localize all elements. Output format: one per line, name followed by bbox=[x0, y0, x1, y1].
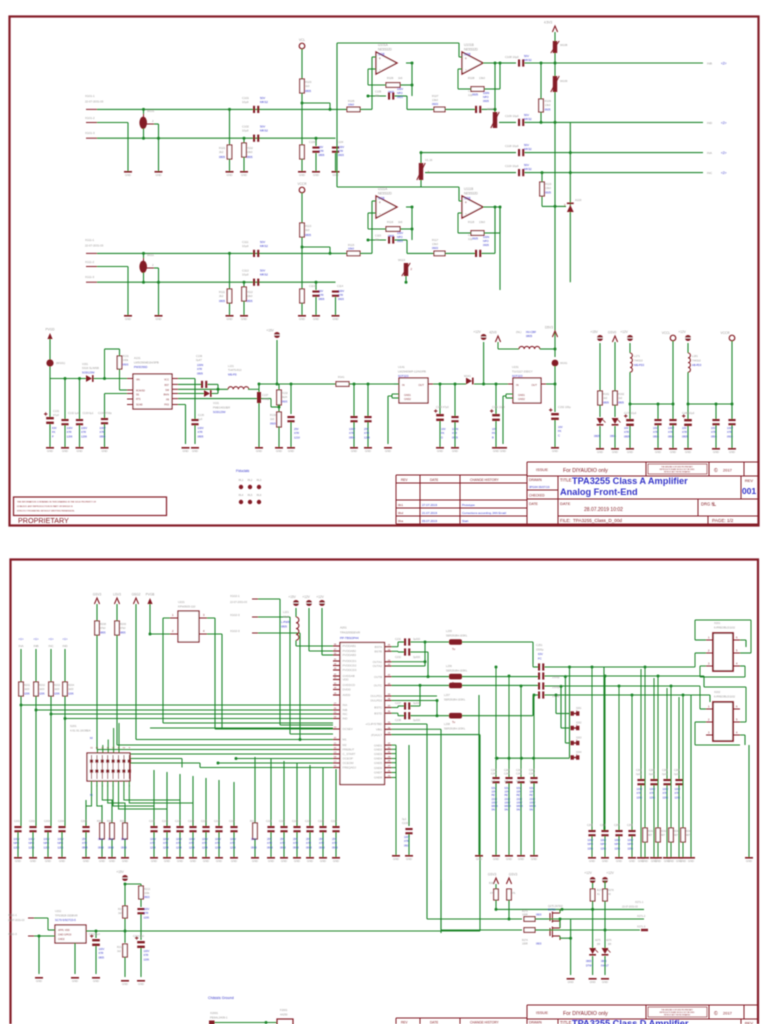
wire bbox=[408, 834, 410, 855]
svg-text:+CLIP/STBD: +CLIP/STBD bbox=[365, 722, 382, 726]
svg-text:13k0: 13k0 bbox=[432, 242, 438, 246]
svg-text:25V: 25V bbox=[364, 427, 369, 431]
svg-text:2017: 2017 bbox=[723, 468, 733, 473]
wire bbox=[360, 252, 372, 254]
junction bbox=[559, 918, 562, 921]
svg-text:GND: GND bbox=[138, 982, 144, 986]
svg-text:1206: 1206 bbox=[637, 796, 643, 799]
svg-text:2: 2 bbox=[172, 629, 174, 633]
junction bbox=[353, 383, 356, 386]
wire CLIP bbox=[392, 723, 428, 725]
svg-text:1μ0: 1μ0 bbox=[491, 780, 496, 783]
supply arrow GSV3 c bbox=[506, 878, 511, 884]
svg-text:PVDDAB3: PVDDAB3 bbox=[343, 653, 357, 657]
svg-text:OCSEV: OCSEV bbox=[343, 727, 353, 731]
svg-text:GND GPIO0: GND GPIO0 bbox=[58, 934, 72, 937]
svg-text:R133: R133 bbox=[270, 413, 277, 417]
svg-text:GND: GND bbox=[203, 859, 209, 863]
wire +15V rail bbox=[259, 383, 336, 385]
svg-text:1k6: 1k6 bbox=[398, 220, 403, 224]
wire IND bus to U201 bbox=[65, 718, 333, 720]
ground C205 bbox=[82, 857, 90, 859]
wire bbox=[457, 213, 459, 233]
wire bbox=[207, 617, 215, 619]
svg-text:GND: GND bbox=[45, 859, 51, 863]
wire bbox=[407, 108, 434, 110]
wire bbox=[221, 634, 223, 728]
capacitor C262 bbox=[650, 779, 657, 785]
wire bbox=[329, 247, 331, 253]
svg-text:16V: 16V bbox=[682, 426, 687, 430]
pin stub X211-1 bbox=[28, 917, 34, 919]
ground C226 bbox=[319, 857, 327, 859]
capacitor C261 bbox=[637, 779, 644, 785]
svg-text:13k0: 13k0 bbox=[545, 103, 551, 107]
svg-text:2: 2 bbox=[152, 119, 154, 123]
svg-text:C108 10μ0: C108 10μ0 bbox=[505, 55, 519, 59]
svg-text:22-07-2031-03: 22-07-2031-03 bbox=[85, 244, 104, 248]
power symbol +15V page2 bbox=[293, 600, 299, 606]
wire bbox=[533, 694, 538, 696]
wire BST bbox=[178, 383, 201, 385]
ground C216 bbox=[215, 857, 223, 859]
svg-text:M694: M694 bbox=[530, 805, 537, 808]
wire bbox=[411, 63, 413, 96]
svg-text:GND: GND bbox=[30, 859, 36, 863]
svg-text:+: + bbox=[465, 200, 468, 205]
capacitor C103 bbox=[312, 147, 319, 153]
wire bbox=[484, 232, 500, 234]
svg-text:GND: GND bbox=[125, 317, 131, 321]
svg-text:GND: GND bbox=[281, 859, 287, 863]
svg-text:100R: 100R bbox=[522, 914, 528, 917]
resistor R211 bbox=[123, 906, 128, 918]
svg-text:W109: W109 bbox=[560, 79, 568, 83]
svg-text:o: o bbox=[713, 501, 715, 505]
wire bbox=[499, 121, 516, 123]
supply arrow PVGB bbox=[147, 598, 152, 604]
junction bbox=[508, 918, 511, 921]
ground C202 bbox=[29, 857, 37, 859]
wire bbox=[454, 384, 456, 416]
svg-text:R213: R213 bbox=[144, 888, 151, 891]
wire bbox=[119, 369, 121, 390]
svg-text:3: 3 bbox=[708, 732, 710, 735]
svg-text:GND: GND bbox=[216, 859, 222, 863]
wire bbox=[458, 88, 471, 90]
svg-text:10k0: 10k0 bbox=[108, 837, 114, 841]
wire bbox=[124, 758, 182, 760]
svg-text:100V: 100V bbox=[397, 87, 403, 91]
capacitor C113 bbox=[312, 291, 319, 297]
wire bbox=[748, 745, 750, 857]
junction bbox=[424, 641, 427, 644]
capacitor C104 bbox=[332, 147, 339, 153]
wire bbox=[569, 122, 571, 282]
junction bbox=[420, 151, 423, 154]
svg-text:RL2: RL2 bbox=[248, 478, 253, 482]
svg-text:C226: C226 bbox=[318, 820, 325, 823]
svg-text:Start: Start bbox=[462, 519, 469, 523]
junction bbox=[618, 685, 621, 688]
svg-text:100V: 100V bbox=[144, 908, 150, 911]
svg-text:100V: 100V bbox=[58, 837, 64, 841]
svg-text:16V: 16V bbox=[711, 426, 716, 430]
svg-text:GND: GND bbox=[655, 450, 661, 454]
svg-text:L-PWR: L-PWR bbox=[281, 620, 290, 624]
svg-text:0μ01: 0μ01 bbox=[662, 773, 668, 776]
wire bus VCCR bbox=[688, 403, 732, 405]
wire bbox=[599, 426, 601, 448]
wire bbox=[158, 268, 160, 315]
svg-text:NE5532D: NE5532D bbox=[378, 47, 393, 51]
wire bbox=[506, 397, 513, 399]
svg-text:KPH0603-110: KPH0603-110 bbox=[178, 605, 196, 609]
svg-text:0μ1: 0μ1 bbox=[402, 818, 407, 821]
junction bbox=[424, 660, 427, 663]
capacitor C119 bbox=[518, 169, 524, 176]
svg-text:AB-PD3: AB-PD3 bbox=[692, 363, 702, 367]
ground right bbox=[687, 857, 695, 859]
svg-text:R242: R242 bbox=[661, 830, 667, 833]
junction bbox=[217, 388, 220, 391]
ground C211 bbox=[150, 857, 158, 859]
svg-text:TITLE: TITLE bbox=[560, 478, 572, 483]
svg-text:X7R: X7R bbox=[711, 430, 716, 434]
svg-text:27.07.2019: 27.07.2019 bbox=[422, 503, 437, 507]
svg-text:13k0: 13k0 bbox=[545, 186, 551, 190]
wire bbox=[556, 713, 570, 715]
svg-text:C105: C105 bbox=[375, 90, 382, 94]
wire bbox=[592, 881, 594, 889]
svg-text:21.07.2019: 21.07.2019 bbox=[422, 511, 437, 515]
svg-text:1206: 1206 bbox=[58, 845, 64, 849]
junction bbox=[329, 252, 332, 255]
wire bbox=[163, 617, 170, 619]
wire bbox=[79, 425, 81, 447]
svg-text:140k: 140k bbox=[123, 358, 129, 362]
wire bbox=[629, 426, 631, 448]
op-amp U111A bbox=[376, 187, 397, 218]
wire bbox=[296, 832, 298, 857]
svg-text:C232: C232 bbox=[395, 656, 402, 659]
wire bbox=[440, 729, 442, 880]
svg-text:X7R: X7R bbox=[163, 841, 168, 845]
power symbol +12V driver b bbox=[602, 877, 608, 883]
wire R210 column bbox=[254, 757, 256, 826]
ground C137 bbox=[255, 447, 263, 449]
wire bbox=[604, 956, 606, 975]
svg-text:GSG2: GSG2 bbox=[132, 593, 141, 597]
wire bbox=[599, 343, 601, 391]
svg-text:1206: 1206 bbox=[230, 845, 236, 849]
svg-text:C224: C224 bbox=[305, 820, 312, 823]
page 2 frame bbox=[11, 560, 759, 1024]
wire bbox=[143, 109, 145, 114]
svg-text:DATE: DATE bbox=[430, 1021, 438, 1024]
wire bbox=[494, 207, 496, 253]
supply arrow LSV3 bbox=[114, 598, 119, 604]
wire bbox=[315, 153, 317, 171]
svg-text:C201: C201 bbox=[14, 820, 21, 823]
capacitor C117 bbox=[475, 250, 481, 257]
wire bbox=[387, 396, 389, 444]
svg-text:GND: GND bbox=[320, 859, 326, 863]
svg-text:X7R: X7R bbox=[404, 840, 409, 843]
wire bbox=[367, 69, 369, 85]
wire bbox=[458, 212, 462, 214]
wire bbox=[205, 832, 207, 857]
wire INB bus to U201 bbox=[36, 709, 333, 711]
svg-text:GND: GND bbox=[365, 449, 371, 453]
ground U211 bbox=[71, 977, 79, 979]
wire bbox=[731, 404, 733, 419]
svg-text:C237: C237 bbox=[395, 702, 402, 705]
wire row A out bbox=[545, 666, 611, 668]
svg-text:NPO: NPO bbox=[483, 95, 489, 99]
capacitor C131 bbox=[44, 412, 54, 424]
wire bbox=[502, 396, 504, 444]
svg-text:GND: GND bbox=[612, 450, 618, 454]
svg-text:GND: GND bbox=[590, 980, 596, 984]
svg-text:<2>: <2> bbox=[721, 62, 727, 66]
svg-text:M2: M2 bbox=[343, 743, 347, 747]
junction bbox=[124, 930, 127, 933]
svg-text:5: 5 bbox=[736, 650, 738, 653]
svg-text:3k24: 3k24 bbox=[282, 395, 288, 399]
supply arrow GSV3 bbox=[94, 598, 99, 604]
svg-text:X264: X264 bbox=[576, 752, 582, 754]
svg-text:X7R: X7R bbox=[338, 293, 343, 297]
svg-text:VIN: VIN bbox=[136, 380, 140, 382]
svg-text:©: © bbox=[714, 1010, 718, 1017]
svg-text:+: + bbox=[379, 200, 382, 205]
svg-text:+15V: +15V bbox=[116, 870, 124, 874]
svg-text:R111: R111 bbox=[219, 290, 226, 294]
wire bbox=[229, 253, 231, 289]
capacitor C232 bbox=[404, 648, 410, 655]
wire bbox=[604, 930, 606, 948]
svg-text:D: D bbox=[441, 435, 443, 439]
svg-text:R202: R202 bbox=[39, 684, 46, 687]
svg-text:X7R: X7R bbox=[82, 841, 87, 845]
svg-text:DR: DR bbox=[597, 944, 601, 946]
junction bbox=[631, 694, 634, 697]
ground C182 bbox=[712, 448, 720, 450]
wire BSTA bbox=[392, 646, 399, 648]
wire bbox=[411, 651, 429, 653]
svg-text:PVDDCD3: PVDDCD3 bbox=[343, 668, 357, 672]
svg-text:X7R: X7R bbox=[653, 430, 658, 434]
svg-text:X7R: X7R bbox=[230, 841, 235, 845]
ground H101 bbox=[596, 448, 604, 450]
svg-text:0605: 0605 bbox=[545, 191, 551, 195]
ground U151 bbox=[499, 447, 507, 449]
pin stub U131 SW bbox=[172, 388, 178, 390]
svg-text:0805: 0805 bbox=[219, 299, 225, 303]
svg-text:1206: 1206 bbox=[14, 845, 20, 849]
svg-text:C216: C216 bbox=[214, 820, 221, 823]
power symbol VCL bbox=[299, 43, 305, 49]
junction bbox=[329, 108, 332, 111]
svg-text:1206: 1206 bbox=[215, 845, 221, 849]
svg-text:X102-3: X102-3 bbox=[230, 613, 240, 617]
capacitor C118 bbox=[518, 149, 524, 156]
capacitor C215 bbox=[176, 826, 183, 832]
R206 bbox=[100, 823, 105, 839]
LED H271 bbox=[589, 948, 598, 956]
wire BSTC bbox=[392, 707, 399, 709]
svg-text:47k: 47k bbox=[512, 892, 517, 895]
svg-text:GND: GND bbox=[746, 859, 752, 863]
wire bbox=[508, 783, 510, 855]
svg-text:C258: C258 bbox=[627, 824, 633, 827]
wire to U201 PVDDAB3 bbox=[322, 654, 333, 656]
svg-text:GND: GND bbox=[47, 449, 53, 453]
wire C217 column bbox=[233, 782, 235, 826]
wire input rail a bbox=[50, 378, 86, 380]
svg-text:100V: 100V bbox=[100, 426, 106, 430]
wire bbox=[506, 393, 513, 395]
junction bbox=[149, 633, 152, 636]
wire bbox=[398, 715, 404, 717]
wire bbox=[243, 157, 245, 171]
svg-text:X7R: X7R bbox=[144, 912, 149, 915]
svg-text:10μ0: 10μ0 bbox=[242, 129, 249, 133]
svg-text:TH475-R10: TH475-R10 bbox=[228, 368, 242, 372]
wire bbox=[569, 757, 572, 759]
wire D5V3 rail bbox=[554, 122, 556, 337]
resistor R101 bbox=[227, 145, 232, 159]
svg-text:1206: 1206 bbox=[67, 434, 73, 438]
wire bbox=[554, 366, 556, 412]
svg-text:0603: 0603 bbox=[282, 400, 288, 404]
svg-text:SOT223: SOT223 bbox=[398, 374, 409, 378]
svg-text:X261: X261 bbox=[576, 708, 582, 710]
pin stub U221-3 bbox=[199, 617, 207, 619]
svg-text:PVDDCD2: PVDDCD2 bbox=[343, 664, 357, 668]
junction bbox=[157, 137, 160, 140]
svg-text:X7R: X7R bbox=[332, 841, 337, 845]
pin stub X201-3 bbox=[706, 665, 713, 667]
svg-text:R141: R141 bbox=[338, 375, 345, 379]
wire bbox=[744, 735, 746, 745]
capacitor C257 bbox=[615, 830, 622, 836]
svg-text:GND1: GND1 bbox=[518, 394, 526, 397]
svg-text:OCEOM: OCEOM bbox=[343, 761, 355, 765]
wire BSTB bbox=[392, 650, 399, 652]
wire bbox=[454, 422, 456, 447]
svg-text:10k0: 10k0 bbox=[348, 247, 354, 251]
wire X271-2 row bbox=[427, 918, 522, 920]
wire bbox=[290, 384, 292, 414]
wire inter-channel reference rail bbox=[336, 43, 338, 187]
wire bbox=[629, 372, 631, 404]
svg-text:9%: 9% bbox=[505, 809, 509, 812]
ground R209 bbox=[121, 857, 129, 859]
svg-text:22p: 22p bbox=[375, 94, 380, 98]
wire bbox=[192, 832, 194, 857]
ground R111 bbox=[226, 315, 234, 317]
svg-text:AVDD: AVDD bbox=[343, 693, 351, 697]
IC U211 bbox=[55, 925, 86, 943]
resistor R112 bbox=[242, 287, 247, 301]
svg-text:GND: GND bbox=[476, 857, 482, 861]
wire bbox=[124, 839, 126, 857]
svg-text:R112: R112 bbox=[247, 290, 254, 294]
svg-text:OULPD2: OULPD2 bbox=[370, 699, 382, 703]
svg-text:2017: 2017 bbox=[723, 1011, 733, 1016]
svg-text:PP-TBSOP44: PP-TBSOP44 bbox=[340, 636, 359, 640]
svg-text:SC70-5/SOT23-5: SC70-5/SOT23-5 bbox=[55, 918, 76, 922]
svg-text:100V: 100V bbox=[615, 839, 621, 842]
svg-text:C214 1μ0: C214 1μ0 bbox=[133, 935, 145, 938]
transistor Q276 bbox=[550, 924, 560, 940]
capacitor C243 bbox=[505, 777, 512, 783]
diode V131 bbox=[204, 390, 212, 397]
inductor L235 bbox=[449, 639, 462, 645]
ground C134 bbox=[101, 447, 109, 449]
wire bbox=[458, 68, 462, 70]
svg-text:2220: 2220 bbox=[492, 798, 498, 801]
ground C139 bbox=[350, 447, 358, 449]
wire bbox=[458, 43, 460, 57]
svg-text:X7R: X7R bbox=[319, 841, 324, 845]
power symbol +15V supervisor bbox=[122, 875, 128, 881]
wire bbox=[391, 394, 393, 398]
wire bbox=[61, 832, 63, 857]
wires S201 bottom bbox=[86, 781, 92, 820]
svg-text:X111-3: X111-3 bbox=[85, 275, 95, 279]
wire C226 column bbox=[322, 767, 324, 826]
wire bbox=[49, 379, 51, 418]
svg-text:VCCR: VCCR bbox=[720, 331, 730, 335]
svg-text:WE-PD3: WE-PD3 bbox=[634, 363, 645, 367]
svg-text:1206: 1206 bbox=[39, 693, 45, 696]
wire bbox=[542, 205, 566, 207]
svg-text:X7R: X7R bbox=[189, 841, 194, 845]
svg-text:GND: GND bbox=[227, 317, 233, 321]
junction bbox=[540, 62, 543, 65]
pin stub X202-4 bbox=[733, 734, 740, 736]
capacitor C202 bbox=[29, 826, 36, 832]
wire bbox=[740, 639, 746, 641]
junction bbox=[290, 383, 293, 386]
svg-text:100V: 100V bbox=[588, 839, 594, 842]
solder jumper X263 bbox=[571, 741, 574, 745]
wire bbox=[270, 832, 272, 857]
svg-text:SS16 SL/WSB: SS16 SL/WSB bbox=[82, 366, 99, 370]
svg-text:C242: C242 bbox=[491, 773, 497, 776]
svg-text:0603: 0603 bbox=[123, 363, 129, 367]
svg-text:LSV3: LSV3 bbox=[113, 593, 121, 597]
resistor R106 bbox=[386, 83, 400, 88]
capacitor C255 bbox=[588, 830, 595, 836]
svg-text:R106: R106 bbox=[387, 76, 394, 80]
wire bbox=[367, 422, 369, 447]
junction bbox=[532, 757, 535, 760]
svg-text:GND: GND bbox=[685, 450, 691, 454]
svg-text:REV: REV bbox=[401, 1021, 408, 1024]
supply arrow PVGD bbox=[47, 333, 52, 339]
svg-text:GND: GND bbox=[406, 857, 412, 861]
junction bbox=[672, 403, 675, 406]
svg-text:MKS2: MKS2 bbox=[260, 244, 268, 248]
wire bbox=[194, 379, 196, 420]
svg-text:25V: 25V bbox=[319, 837, 324, 841]
svg-text:DATE: DATE bbox=[430, 478, 438, 482]
svg-text:GND2: GND2 bbox=[58, 938, 65, 941]
